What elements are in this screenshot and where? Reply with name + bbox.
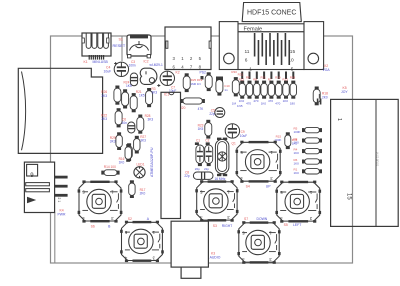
capacitor C7 — [160, 71, 174, 85]
svg-text:S3: S3 — [213, 224, 217, 228]
capacitor C9 — [225, 124, 239, 138]
svg-text:S1: S1 — [119, 38, 123, 42]
svg-text:22p: 22p — [184, 174, 190, 178]
switch pin 3 — [55, 194, 68, 197]
svg-text:1M0 1N: 1M0 1N — [191, 82, 201, 86]
reset button S1 — [127, 34, 151, 58]
resistor R18 — [315, 87, 319, 90]
wire from board top to C4 — [121, 36, 123, 61]
resistor R8 — [256, 72, 258, 80]
SD card socket K6 — [18, 68, 102, 153]
svg-text:1K5: 1K5 — [126, 84, 132, 88]
microcontroller IC1 — [161, 92, 181, 218]
resistor R23 — [206, 120, 210, 123]
resistor R3 — [147, 88, 151, 91]
VGA right mounting ear — [304, 22, 324, 70]
svg-text:R13: R13 — [282, 77, 288, 81]
resistor R28 — [138, 115, 142, 118]
svg-text:1K0: 1K0 — [292, 142, 298, 146]
capacitor C10 — [217, 77, 221, 80]
svg-text:22p: 22p — [209, 112, 215, 116]
svg-text:470: 470 — [253, 99, 258, 103]
svg-text:1K5: 1K5 — [139, 94, 145, 98]
resistor R4 — [126, 144, 130, 147]
mini-USB connector K1 — [82, 33, 111, 56]
svg-text:R9: R9 — [246, 75, 250, 79]
svg-text:15: 15 — [290, 49, 296, 55]
svg-text:UP: UP — [266, 184, 271, 188]
voltage regulator IC2 — [140, 68, 157, 84]
svg-text:R31: R31 — [238, 72, 244, 76]
svg-text:A: A — [147, 217, 150, 221]
VGA connector X2: HDF15 CONEC box — [242, 3, 301, 22]
capacitor C4 — [114, 62, 128, 76]
capacitor C5 — [215, 108, 225, 118]
svg-text:S4: S4 — [246, 184, 250, 188]
svg-text:ATMEGA328P-PU: ATMEGA328P-PU — [150, 147, 154, 177]
capacitor C1 — [195, 142, 204, 166]
joystick connector K5 body — [331, 99, 399, 226]
svg-text:1K0: 1K0 — [119, 161, 125, 165]
svg-text:15: 15 — [346, 193, 352, 200]
power switch K4 — [24, 162, 54, 212]
connector K2 (PS/2) — [165, 27, 211, 70]
svg-text:10n: 10n — [122, 121, 128, 125]
svg-text:470: 470 — [246, 102, 251, 106]
svg-text:S5: S5 — [284, 223, 288, 227]
svg-text:MINI-USB: MINI-USB — [93, 60, 109, 64]
pad — [201, 76, 204, 80]
svg-text:180: 180 — [290, 102, 295, 106]
resistor R15 — [286, 132, 290, 135]
svg-text:20p: 20p — [195, 167, 200, 171]
svg-text:1K0: 1K0 — [261, 102, 267, 106]
svg-text:1: 1 — [336, 118, 342, 121]
svg-text:PS2: PS2 — [200, 71, 207, 75]
svg-text:DOWN: DOWN — [257, 217, 268, 221]
capacitor C2 — [205, 142, 213, 166]
svg-text:B: B — [108, 224, 111, 228]
svg-text:22p: 22p — [204, 167, 209, 171]
svg-text:1K5: 1K5 — [198, 127, 204, 131]
pushbutton S4 (UP) — [236, 141, 282, 183]
svg-text:R7: R7 — [268, 77, 272, 81]
svg-text:3K3: 3K3 — [140, 139, 146, 143]
capacitor C6 — [128, 122, 135, 133]
svg-text:1M: 1M — [232, 102, 237, 106]
crystal Q1 — [215, 138, 229, 177]
resistor R12 — [241, 72, 243, 80]
svg-text:IC1: IC1 — [164, 92, 169, 96]
resistor R10 — [278, 72, 280, 80]
svg-text:3K3: 3K3 — [110, 140, 116, 144]
horizontal capacitor C8 — [193, 172, 213, 179]
LED LED1 — [134, 167, 145, 178]
resistor R24 — [123, 89, 127, 92]
resistor R32 — [234, 77, 238, 80]
resistor R11 — [263, 72, 265, 80]
resistor R22 — [117, 108, 121, 111]
wire from switch K3 to board bottom — [54, 213, 56, 264]
svg-text:R10: R10 — [275, 75, 281, 79]
svg-text:3K3: 3K3 — [152, 91, 158, 95]
svg-text:R14 100: R14 100 — [104, 165, 116, 169]
capacitor C3 — [130, 73, 137, 86]
svg-text:1n: 1n — [224, 88, 228, 92]
svg-text:S6: S6 — [91, 224, 95, 228]
svg-text:S2: S2 — [128, 217, 132, 221]
svg-text:JOY: JOY — [341, 90, 348, 94]
board outline — [51, 36, 353, 263]
resistor R6 — [302, 160, 305, 164]
resistor R27 — [135, 136, 139, 139]
svg-text:R11: R11 — [261, 75, 267, 79]
resistor R19 — [207, 72, 211, 75]
svg-text:C2: C2 — [205, 139, 209, 143]
svg-text:R8: R8 — [253, 77, 257, 81]
resistor R29 — [117, 132, 121, 135]
svg-text:wf-M29-1: wf-M29-1 — [150, 63, 164, 67]
svg-text:R12: R12 — [239, 77, 245, 81]
resistor R16 — [127, 143, 131, 146]
capacitor C11 — [317, 94, 322, 105]
resistor R25 — [185, 73, 189, 76]
svg-text:1K0: 1K0 — [294, 161, 300, 165]
audio jack K3 — [171, 221, 208, 278]
pushbutton S7 (DOWN) — [237, 221, 280, 264]
svg-text:2K0: 2K0 — [140, 192, 146, 196]
svg-text:RIGHT: RIGHT — [222, 224, 233, 228]
switch pin 2 — [55, 185, 68, 188]
svg-text:47K: 47K — [198, 107, 205, 111]
svg-text:IC2: IC2 — [144, 60, 149, 64]
svg-text:1K0: 1K0 — [283, 99, 289, 103]
resistor R2 — [302, 139, 305, 143]
pad — [185, 76, 189, 80]
VGA pins — [254, 33, 256, 57]
svg-text:10: 10 — [288, 58, 294, 64]
svg-text:LEFT: LEFT — [293, 223, 301, 227]
svg-text:LED1: LED1 — [137, 163, 145, 167]
svg-text:1K0: 1K0 — [294, 151, 300, 155]
svg-text:VGA: VGA — [323, 68, 331, 72]
resistor R9 — [249, 72, 251, 80]
resistor R13 — [285, 72, 287, 80]
resistor R18 — [292, 72, 294, 80]
svg-text:3K3: 3K3 — [101, 117, 107, 121]
svg-text:R18: R18 — [290, 75, 296, 79]
svg-text:6: 6 — [245, 58, 248, 64]
joystick divider — [375, 99, 377, 226]
pushbutton S6 (button B) — [78, 180, 123, 222]
svg-text:C1: C1 — [196, 139, 200, 143]
resistor R26 — [115, 86, 119, 89]
VGA left mounting ear — [219, 22, 238, 70]
pad — [216, 77, 223, 83]
svg-text:1K0: 1K0 — [294, 171, 300, 175]
svg-text:1N5: 1N5 — [237, 104, 243, 108]
svg-text:HDF15 CONEC: HDF15 CONEC — [247, 10, 296, 17]
resistor R14 — [101, 171, 104, 175]
resistor R21 — [132, 93, 136, 96]
pushbutton S5 (LEFT) — [275, 181, 321, 223]
VGA Female bar — [238, 24, 304, 32]
svg-text:RESET: RESET — [113, 44, 126, 48]
svg-text:S7: S7 — [244, 217, 248, 221]
pushbutton S2 (button A) — [120, 221, 164, 262]
resistor R5 — [302, 128, 305, 132]
svg-text:470: 470 — [275, 102, 280, 106]
svg-text:3K3: 3K3 — [101, 94, 107, 98]
resistor R20 — [180, 99, 183, 103]
resistor R1 — [302, 169, 305, 173]
C7 plus — [157, 84, 160, 87]
svg-text:3K3: 3K3 — [148, 117, 154, 121]
resistor R17 — [130, 180, 134, 183]
svg-text:470: 470 — [268, 99, 273, 103]
switch pin 1 — [55, 176, 68, 179]
pushbutton S3 (RIGHT) — [195, 180, 238, 222]
svg-text:Q1: Q1 — [232, 142, 236, 146]
svg-text:10uF: 10uF — [240, 134, 247, 138]
svg-text:AUDIO: AUDIO — [210, 255, 221, 259]
svg-text:K2: K2 — [176, 71, 180, 75]
svg-text:1K0: 1K0 — [239, 99, 245, 103]
svg-text:2 1: 2 1 — [57, 198, 61, 203]
svg-text:K1: K1 — [84, 60, 88, 64]
svg-text:10uF: 10uF — [104, 70, 112, 74]
svg-text:100K: 100K — [294, 130, 301, 134]
svg-text:2K0: 2K0 — [322, 96, 328, 100]
resistor R4 — [302, 149, 305, 153]
svg-text:100n: 100n — [129, 64, 136, 68]
svg-text:PWR: PWR — [58, 213, 66, 217]
C4 plus — [114, 62, 117, 65]
VGA body — [238, 32, 304, 70]
svg-text:R30: R30 — [231, 70, 237, 74]
USB crimp pins — [89, 55, 90, 60]
svg-text:11: 11 — [245, 49, 250, 55]
svg-text:DSUB 15 M: DSUB 15 M — [376, 152, 380, 166]
resistor R7 — [270, 72, 272, 80]
